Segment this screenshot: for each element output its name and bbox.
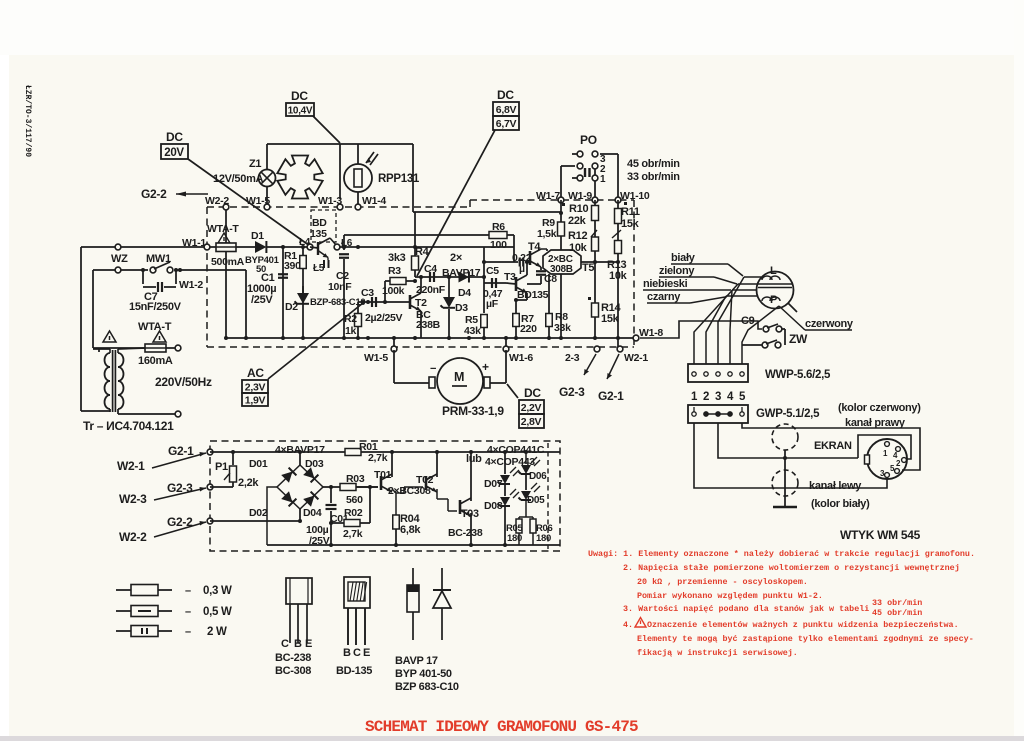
svg-text:R11: R11 xyxy=(621,206,640,218)
svg-text:43k: 43k xyxy=(464,325,481,337)
svg-text:Oznaczenie elementów ważnych z: Oznaczenie elementów ważnych z punktu wi… xyxy=(647,620,959,630)
svg-text:10nF: 10nF xyxy=(328,281,352,293)
svg-text:5: 5 xyxy=(739,391,746,403)
svg-text:W1-9: W1-9 xyxy=(568,190,592,202)
svg-text:D1: D1 xyxy=(251,230,264,242)
svg-text:2µ2/25V: 2µ2/25V xyxy=(365,312,403,324)
svg-text:EKRAN: EKRAN xyxy=(814,440,852,452)
svg-text:10k: 10k xyxy=(569,242,588,254)
svg-text:D06: D06 xyxy=(529,471,547,482)
svg-text:BZP-683-C10: BZP-683-C10 xyxy=(310,297,365,308)
svg-text:niebieski: niebieski xyxy=(643,278,688,290)
svg-text:Pomiar wykonano względem punkt: Pomiar wykonano względem punktu W1-2. xyxy=(637,591,823,601)
svg-text:W1-10: W1-10 xyxy=(620,190,650,202)
svg-text:2,2k: 2,2k xyxy=(238,477,259,489)
svg-text:0,3 W: 0,3 W xyxy=(203,585,232,597)
svg-text:3: 3 xyxy=(715,391,721,403)
svg-text:20V: 20V xyxy=(164,147,184,159)
svg-text:4×COP441C: 4×COP441C xyxy=(487,444,545,456)
svg-text:biały: biały xyxy=(671,252,696,264)
svg-text:R02: R02 xyxy=(344,507,363,519)
svg-text:15nF/250V: 15nF/250V xyxy=(129,301,182,313)
svg-text:DC: DC xyxy=(497,88,514,102)
svg-text:10,4V: 10,4V xyxy=(288,106,313,117)
svg-text:1: 1 xyxy=(691,391,698,403)
svg-text:6,8V: 6,8V xyxy=(496,104,517,116)
svg-text:W2-2: W2-2 xyxy=(119,530,147,544)
svg-text:C: C xyxy=(281,638,289,650)
svg-text:G2-3: G2-3 xyxy=(559,385,585,399)
svg-text:0,5 W: 0,5 W xyxy=(203,606,232,618)
svg-text:P1: P1 xyxy=(215,461,228,473)
svg-text:D2: D2 xyxy=(285,301,298,313)
svg-text:135: 135 xyxy=(310,228,327,240)
svg-text:Tr – ИC4.704.121: Tr – ИC4.704.121 xyxy=(83,419,174,433)
svg-text:µF: µF xyxy=(486,298,499,310)
svg-text:W1-4: W1-4 xyxy=(362,195,386,207)
svg-text:czerwony: czerwony xyxy=(805,318,854,330)
svg-text:W1-5: W1-5 xyxy=(364,352,388,364)
svg-text:−: − xyxy=(430,363,436,375)
svg-text:C3: C3 xyxy=(361,287,374,299)
svg-text:308B: 308B xyxy=(550,264,573,275)
svg-text:(kolor biały): (kolor biały) xyxy=(811,498,870,510)
svg-text:2×: 2× xyxy=(450,252,462,264)
svg-text:T5: T5 xyxy=(582,262,594,274)
svg-text:DC: DC xyxy=(166,130,183,144)
svg-text:(kolor czerwony): (kolor czerwony) xyxy=(838,402,921,414)
svg-text:2,7k: 2,7k xyxy=(368,452,388,464)
svg-text:+: + xyxy=(482,360,489,374)
svg-text:M: M xyxy=(454,370,464,384)
svg-text:Elementy te mogą być zastąpion: Elementy te mogą być zastąpione tylko el… xyxy=(637,634,974,644)
svg-text:E: E xyxy=(363,647,370,659)
svg-text:PO: PO xyxy=(580,133,597,147)
svg-text:500mA: 500mA xyxy=(211,256,245,268)
svg-text:SCHEMAT IDEOWY GRAMOFONU GS-47: SCHEMAT IDEOWY GRAMOFONU GS-475 xyxy=(365,718,638,736)
svg-text:2,7k: 2,7k xyxy=(343,528,363,540)
svg-text:zielony: zielony xyxy=(659,265,695,277)
svg-text:/25V: /25V xyxy=(251,294,273,306)
svg-text:33k: 33k xyxy=(554,322,571,334)
svg-text:15k: 15k xyxy=(621,218,640,230)
svg-text:180: 180 xyxy=(507,533,522,544)
svg-text:C4: C4 xyxy=(424,263,437,275)
svg-text:R03: R03 xyxy=(346,473,365,485)
svg-text:BZP 683-C10: BZP 683-C10 xyxy=(395,681,459,693)
svg-text:C5: C5 xyxy=(486,265,499,277)
svg-text:1k: 1k xyxy=(345,325,357,337)
svg-text:10k: 10k xyxy=(609,270,628,282)
svg-text:D4: D4 xyxy=(458,287,471,299)
svg-text:lub: lub xyxy=(466,453,482,465)
svg-text:4: 4 xyxy=(727,391,734,403)
svg-text:G2-1: G2-1 xyxy=(168,444,194,458)
svg-text:T3: T3 xyxy=(504,271,516,283)
svg-text:220: 220 xyxy=(520,323,537,335)
svg-text:22k: 22k xyxy=(568,215,587,227)
svg-text:W2-3: W2-3 xyxy=(119,492,147,506)
svg-text:WTA-T: WTA-T xyxy=(138,321,172,333)
svg-text:C: C xyxy=(353,647,361,659)
svg-text:T01: T01 xyxy=(374,469,392,481)
svg-text:czarny: czarny xyxy=(647,291,681,303)
svg-text:fikacją w instrukcji serwisowe: fikacją w instrukcji serwisowej. xyxy=(637,648,798,658)
svg-text:33 obr/min: 33 obr/min xyxy=(872,598,922,608)
svg-text:–: – xyxy=(185,585,191,597)
svg-text:DC: DC xyxy=(524,386,541,400)
svg-text:G2-1: G2-1 xyxy=(598,389,624,403)
svg-text:1: 1 xyxy=(600,174,606,185)
svg-text:Uwagi: 1. Elementy oznaczone *: Uwagi: 1. Elementy oznaczone * należy do… xyxy=(588,549,975,559)
svg-text:WTYK WM 545: WTYK WM 545 xyxy=(840,528,921,542)
svg-text:kanał lewy: kanał lewy xyxy=(809,480,862,492)
svg-text:PRM-33-1,9: PRM-33-1,9 xyxy=(442,404,504,418)
svg-text:D3: D3 xyxy=(455,302,468,314)
svg-text:B: B xyxy=(343,647,351,659)
svg-text:45 obr/min: 45 obr/min xyxy=(872,608,922,618)
svg-text:W1-7: W1-7 xyxy=(536,190,560,202)
svg-text:D07: D07 xyxy=(484,478,503,490)
svg-text:D02: D02 xyxy=(249,507,268,519)
svg-text:BYP 401-50: BYP 401-50 xyxy=(395,668,452,680)
svg-text:180: 180 xyxy=(536,533,551,544)
svg-text:BD-135: BD-135 xyxy=(336,665,372,677)
svg-text:D05: D05 xyxy=(527,495,545,506)
svg-text:R2: R2 xyxy=(344,313,357,325)
svg-text:15k: 15k xyxy=(601,313,620,325)
svg-text:GWP-5.1/2,5: GWP-5.1/2,5 xyxy=(756,408,820,420)
svg-text:R3: R3 xyxy=(388,265,401,277)
svg-text:33 obr/min: 33 obr/min xyxy=(627,171,680,183)
svg-text:DC: DC xyxy=(291,89,308,103)
svg-text:2,3V: 2,3V xyxy=(245,382,266,394)
svg-text:AC: AC xyxy=(247,366,264,380)
svg-text:4.: 4. xyxy=(623,620,633,630)
svg-text:E: E xyxy=(305,638,312,650)
svg-text:P: P xyxy=(770,294,777,306)
svg-text:BC-308: BC-308 xyxy=(275,665,311,677)
svg-text:–: – xyxy=(185,626,191,638)
svg-text:12V/50mA: 12V/50mA xyxy=(213,173,264,185)
svg-text:B: B xyxy=(294,638,302,650)
svg-text:ŁZR/TO-3/117/90: ŁZR/TO-3/117/90 xyxy=(23,85,32,157)
svg-text:G2-2: G2-2 xyxy=(141,187,167,201)
svg-text:1,9V: 1,9V xyxy=(245,395,266,407)
svg-text:WZ: WZ xyxy=(111,253,128,265)
svg-text:T2: T2 xyxy=(415,297,427,309)
svg-text:220nF: 220nF xyxy=(416,284,446,296)
svg-text:T02: T02 xyxy=(416,474,434,486)
svg-text:160mA: 160mA xyxy=(138,355,173,367)
svg-text:W2-1: W2-1 xyxy=(624,352,648,364)
svg-text:W1-6: W1-6 xyxy=(509,352,533,364)
svg-text:2: 2 xyxy=(703,391,709,403)
svg-text:WWP-5.6/2,5: WWP-5.6/2,5 xyxy=(765,369,831,381)
svg-text:D08: D08 xyxy=(484,500,503,512)
svg-text:W1-2: W1-2 xyxy=(179,279,203,291)
svg-text:1,5k: 1,5k xyxy=(537,228,557,240)
svg-text:D01: D01 xyxy=(249,458,268,470)
svg-text:–: – xyxy=(185,606,191,618)
svg-text:D03: D03 xyxy=(305,458,324,470)
svg-text:2-3: 2-3 xyxy=(565,352,580,364)
svg-text:BC-238: BC-238 xyxy=(275,652,311,664)
svg-text:220V/50Hz: 220V/50Hz xyxy=(155,375,212,389)
svg-text:2,8V: 2,8V xyxy=(521,416,542,428)
svg-text:2. Napięcia stałe pomierzone w: 2. Napięcia stałe pomierzone woltomierze… xyxy=(623,563,960,573)
svg-text:RPP131: RPP131 xyxy=(378,173,420,185)
svg-text:R10: R10 xyxy=(569,203,588,215)
svg-text:BAVP 17: BAVP 17 xyxy=(395,655,438,667)
svg-text:R12: R12 xyxy=(568,230,587,242)
svg-text:20 kΩ , przemienne - oscylosko: 20 kΩ , przemienne - oscyloskopem. xyxy=(637,577,808,587)
svg-text:45 obr/min: 45 obr/min xyxy=(627,158,680,170)
svg-text:/25V: /25V xyxy=(309,535,330,547)
svg-text:BC-238: BC-238 xyxy=(448,527,483,539)
svg-text:100k: 100k xyxy=(382,285,405,297)
svg-text:L: L xyxy=(770,265,777,277)
svg-text:W2-1: W2-1 xyxy=(117,459,145,473)
svg-text:ZW: ZW xyxy=(789,332,808,346)
svg-text:6,7V: 6,7V xyxy=(496,118,517,130)
svg-text:D04: D04 xyxy=(303,507,322,519)
svg-text:2,2V: 2,2V xyxy=(521,402,542,414)
svg-text:6,8k: 6,8k xyxy=(400,524,421,536)
svg-text:100: 100 xyxy=(490,239,507,251)
svg-text:2 W: 2 W xyxy=(207,626,227,638)
svg-text:3. Wartości napięć podano dla: 3. Wartości napięć podano dla stanów jak… xyxy=(623,604,869,614)
svg-text:560: 560 xyxy=(346,494,363,506)
svg-text:R6: R6 xyxy=(492,221,505,233)
svg-text:T03: T03 xyxy=(461,508,479,520)
svg-text:238B: 238B xyxy=(416,319,441,331)
svg-text:Z1: Z1 xyxy=(249,158,261,170)
svg-text:G2-3: G2-3 xyxy=(167,481,193,495)
svg-text:3k3: 3k3 xyxy=(388,252,406,264)
svg-text:390: 390 xyxy=(284,260,301,272)
